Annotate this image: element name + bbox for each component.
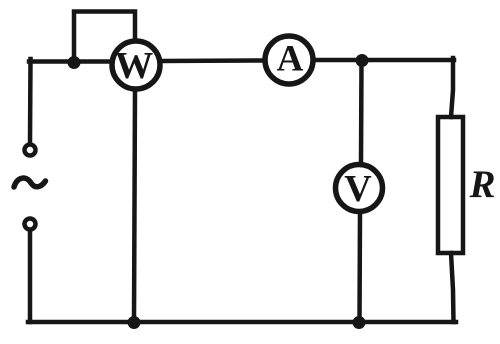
wire right vertical bottom (resistor to bottom wire)	[451, 253, 454, 322]
wire wattmeter to ammeter	[162, 58, 265, 63]
svg-text:V: V	[344, 168, 372, 210]
voltmeter V1 circle	[336, 165, 383, 212]
source terminal lower	[25, 219, 36, 230]
wire right vertical top (corner to resistor)	[451, 58, 453, 117]
node junction dot bottom below W	[128, 316, 141, 329]
source terminal upper	[25, 145, 36, 156]
wire voltmeter to bottom wire	[357, 212, 362, 322]
svg-text:W: W	[115, 45, 154, 87]
wire bottom horizontal	[28, 320, 456, 325]
wire drop to voltmeter	[359, 60, 364, 163]
node junction dot bottom below V	[353, 316, 366, 329]
node junction dot left of W	[68, 56, 81, 69]
node junction dot right of A	[356, 54, 369, 67]
wire left vertical bottom (terminal to bottom wire)	[28, 230, 33, 322]
AC source tilde symbol	[14, 178, 46, 187]
wire left vertical top (corner to source terminal)	[28, 59, 33, 143]
wire voltage-coil loop above wattmeter	[74, 12, 135, 61]
ammeter A1 circle	[265, 36, 313, 84]
wire wattmeter to bottom wire	[134, 89, 135, 322]
svg-text:A: A	[277, 39, 304, 80]
wire ammeter to top-right corner	[315, 58, 454, 63]
resistor R1 body	[438, 117, 463, 253]
svg-text:R: R	[469, 163, 496, 206]
wire top-left horizontal (source to wattmeter)	[29, 59, 110, 64]
op wattmeter W1 circle	[112, 41, 160, 89]
